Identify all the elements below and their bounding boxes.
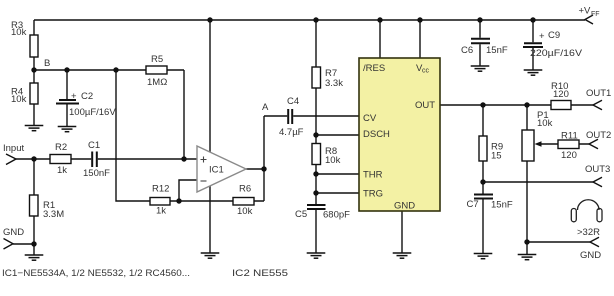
svg-text:R11: R11 bbox=[561, 131, 578, 142]
svg-text:DSCH: DSCH bbox=[363, 129, 390, 140]
svg-text:100µF/16V: 100µF/16V bbox=[69, 107, 116, 118]
svg-text:1k: 1k bbox=[156, 206, 166, 217]
svg-text:+: + bbox=[539, 31, 545, 42]
svg-text:IC2 NE555: IC2 NE555 bbox=[232, 268, 288, 278]
svg-text:R12: R12 bbox=[152, 184, 169, 195]
svg-text:4.7µF: 4.7µF bbox=[279, 127, 304, 138]
svg-text:IC1−NE5534A, 1/2 NE5532, 1/2 R: IC1−NE5534A, 1/2 NE5532, 1/2 RC4560... bbox=[2, 268, 190, 278]
svg-text:C7: C7 bbox=[467, 199, 479, 210]
svg-text:680pF: 680pF bbox=[323, 210, 350, 221]
svg-text:>32R: >32R bbox=[577, 227, 600, 238]
svg-text:120: 120 bbox=[553, 89, 569, 100]
svg-text:1MΩ: 1MΩ bbox=[147, 77, 167, 88]
svg-text:FF: FF bbox=[591, 11, 600, 18]
svg-text:R6: R6 bbox=[239, 184, 251, 195]
svg-text:C2: C2 bbox=[81, 91, 93, 102]
svg-text:cc: cc bbox=[422, 68, 430, 75]
svg-text:10k: 10k bbox=[325, 155, 341, 166]
svg-text:120: 120 bbox=[561, 150, 577, 161]
svg-text:15: 15 bbox=[491, 151, 502, 162]
svg-text:GND: GND bbox=[394, 201, 415, 212]
svg-text:A: A bbox=[262, 102, 269, 113]
svg-text:+: + bbox=[71, 91, 77, 102]
svg-text:Input: Input bbox=[3, 143, 24, 154]
svg-text:OUT2: OUT2 bbox=[586, 130, 611, 141]
svg-text:CV: CV bbox=[363, 113, 377, 124]
svg-text:+V: +V bbox=[579, 6, 592, 17]
svg-text:/RES: /RES bbox=[363, 63, 385, 74]
svg-text:3.3M: 3.3M bbox=[43, 209, 64, 220]
svg-text:10k: 10k bbox=[237, 206, 253, 217]
svg-text:220µF/16V: 220µF/16V bbox=[530, 48, 583, 59]
svg-text:TRG: TRG bbox=[363, 189, 383, 200]
svg-text:IC1: IC1 bbox=[209, 165, 224, 176]
svg-text:OUT1: OUT1 bbox=[586, 88, 611, 99]
svg-text:OUT: OUT bbox=[415, 100, 435, 111]
svg-text:1k: 1k bbox=[57, 165, 67, 176]
svg-text:3.3k: 3.3k bbox=[325, 78, 343, 89]
svg-text:C4: C4 bbox=[287, 96, 299, 107]
svg-text:10k: 10k bbox=[11, 94, 27, 105]
svg-text:C9: C9 bbox=[548, 30, 560, 41]
svg-text:10k: 10k bbox=[11, 27, 27, 38]
svg-text:GND: GND bbox=[580, 250, 601, 261]
svg-text:R5: R5 bbox=[151, 54, 163, 65]
svg-text:THR: THR bbox=[363, 170, 383, 181]
svg-text:R2: R2 bbox=[55, 142, 67, 153]
svg-text:C6: C6 bbox=[461, 45, 473, 56]
svg-text:10k: 10k bbox=[537, 118, 553, 129]
svg-text:B: B bbox=[44, 58, 50, 69]
svg-text:150nF: 150nF bbox=[83, 168, 110, 179]
svg-text:OUT3: OUT3 bbox=[585, 164, 610, 175]
svg-text:GND: GND bbox=[3, 227, 24, 238]
svg-text:15nF: 15nF bbox=[491, 200, 513, 211]
svg-text:15nF: 15nF bbox=[486, 45, 508, 56]
svg-text:C5: C5 bbox=[295, 209, 307, 220]
svg-text:C1: C1 bbox=[88, 140, 100, 151]
